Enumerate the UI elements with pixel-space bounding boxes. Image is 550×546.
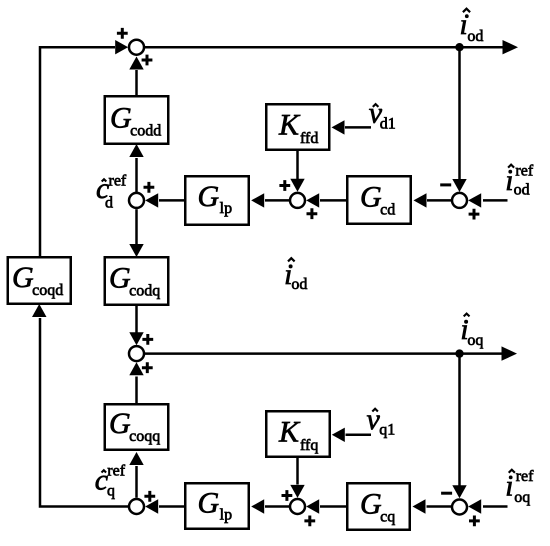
- arrowhead into S8 top: [290, 485, 304, 498]
- svg-text:q1: q1: [379, 422, 395, 439]
- signal label v_q1: [367, 403, 396, 439]
- summing junction S8: [290, 499, 305, 514]
- wire: G_cq output to S8: [320, 505, 346, 508]
- wire: v_q1 input to K_ffq: [346, 434, 372, 437]
- wire: S5 output right to i_oq output arrow: [145, 352, 504, 355]
- plus sign at S2 right input: [144, 182, 155, 193]
- wire: v_d1 input to K_ffd: [345, 126, 371, 129]
- summing junction S6 c_q_ref node: [129, 499, 144, 514]
- arrowhead into G_coqq bottom: [129, 452, 143, 465]
- minus sign at S4 top input: [440, 183, 451, 186]
- svg-text:ı: ı: [505, 470, 513, 503]
- block G_codd: [105, 96, 169, 144]
- wire: S6 output up to G_coqq: [135, 466, 138, 498]
- signal label c_q ref: [95, 462, 126, 499]
- wire: K_ffq output down to S8: [296, 458, 299, 485]
- arrowhead into G_lp right: [251, 193, 264, 207]
- wire: G_lp bottom output to S6: [159, 505, 184, 508]
- arrowhead into G_cq right: [413, 499, 426, 513]
- plus sign at S5 top input: [142, 334, 153, 345]
- arrowhead i_od output: [503, 40, 519, 54]
- wire: feedback down from i_oq node to S7: [458, 354, 461, 486]
- plus sign at S3 right input: [307, 208, 318, 219]
- plus sign at S6 right input: [144, 491, 155, 502]
- block G_lp top: [185, 176, 249, 225]
- wire: G_lp output to S2: [159, 199, 184, 202]
- signal label i_oq ref at right input: [505, 468, 534, 506]
- signal label i_od at middle: [284, 258, 307, 293]
- arrowhead into S5 top: [129, 332, 143, 345]
- svg-text:ref: ref: [516, 468, 534, 485]
- plus sign at S5 bottom input: [142, 362, 153, 373]
- svg-text:q: q: [107, 483, 115, 500]
- wire: S7 output to G_cq: [427, 505, 452, 508]
- arrowhead into S4 right: [468, 193, 481, 207]
- block G_coqd: [8, 257, 71, 304]
- block G_coqq: [105, 404, 169, 450]
- svg-text:oq: oq: [514, 489, 530, 506]
- wire: i_oq ref input from right: [483, 505, 508, 508]
- svg-text:ı: ı: [505, 164, 513, 197]
- plus sign at S4 right input: [469, 209, 480, 220]
- arrowhead into G_cd right: [414, 193, 427, 207]
- arrowhead into S5 bottom: [129, 362, 143, 375]
- minus sign at S7 top input: [441, 492, 452, 495]
- arrowhead into G_lp bottom right: [251, 499, 264, 513]
- wire: S8 output to G_lp bottom: [265, 505, 289, 508]
- svg-text:ref: ref: [109, 173, 127, 190]
- arrowhead into G_coqd bottom: [32, 304, 47, 317]
- svg-text:d: d: [105, 195, 113, 212]
- wire: feedback down from i_od node to S4: [458, 47, 461, 180]
- wire: G_coqq output up to S5: [135, 377, 138, 404]
- summing junction S7: [452, 500, 467, 515]
- wire: S2 output down to G_codq: [135, 209, 138, 244]
- arrowhead into K_ffd right: [332, 120, 345, 134]
- junction dot at i_oq node: [455, 349, 463, 357]
- wire: K_ffd output down to S3: [296, 151, 299, 180]
- svg-text:od: od: [291, 276, 307, 293]
- block G_codq: [105, 257, 169, 305]
- plus sign at S8 top input: [282, 490, 293, 501]
- arrowhead into G_codq top: [129, 244, 143, 257]
- plus sign at S3 top input: [279, 180, 290, 191]
- junction dot at i_od node: [455, 43, 463, 51]
- block G_cq: [347, 483, 410, 530]
- arrowhead into S4 top: [452, 179, 466, 192]
- plus sign at S8 right input: [304, 516, 315, 527]
- wire: S3 output to G_lp: [265, 199, 289, 202]
- arrowhead into S1 bottom: [129, 57, 143, 70]
- arrowhead into S8 right: [306, 499, 319, 513]
- wire: G_cd output to S3: [320, 199, 346, 202]
- summing junction S1: [129, 40, 144, 55]
- summing junction S2 c_d_ref node: [129, 193, 144, 208]
- plus sign at S1 bottom input: [142, 55, 153, 66]
- summing junction S5: [129, 346, 144, 361]
- wire: S1 output right to i_od output arrow: [145, 46, 505, 49]
- wire: i_od ref input from right: [483, 199, 508, 202]
- summing junction S3: [290, 193, 305, 208]
- wire: S4 output to G_cd: [427, 199, 451, 202]
- signal label v_d1: [369, 97, 396, 133]
- wire: S6 output left then up to G_coqd: [40, 318, 128, 507]
- block G_lp bottom: [185, 483, 249, 529]
- arrowhead into S3 right: [306, 193, 319, 207]
- arrowhead into S1 left: [115, 40, 128, 54]
- plus sign at S1 left input: [117, 28, 128, 39]
- block K_ffd: [266, 104, 329, 150]
- wire: G_codd output up to S1: [135, 70, 138, 95]
- svg-text:ref: ref: [515, 163, 533, 180]
- svg-text:od: od: [514, 182, 530, 199]
- signal label i_od hat at top output: [460, 8, 484, 45]
- svg-text:oq: oq: [467, 332, 483, 349]
- block G_cd: [347, 176, 411, 224]
- wire: S2 output up to G_codd: [135, 158, 138, 192]
- block K_ffq: [266, 411, 330, 457]
- arrowhead into S6 right: [145, 499, 158, 513]
- plus sign at S7 right input: [469, 516, 480, 527]
- arrowhead into S7 right: [468, 499, 481, 513]
- arrowhead into S3 top: [290, 179, 304, 192]
- arrowhead into G_codd bottom: [129, 144, 143, 157]
- svg-text:ref: ref: [107, 462, 125, 479]
- summing junction S4: [452, 193, 467, 208]
- svg-text:d1: d1: [380, 115, 396, 132]
- arrowhead into K_ffq right: [332, 428, 345, 442]
- signal label i_oq hat at bottom output: [460, 313, 483, 349]
- wire: G_coqd output up then right into summing node S1: [40, 47, 115, 256]
- arrowhead into S2 right: [145, 193, 158, 207]
- wire: G_codq output down to S5: [135, 306, 138, 333]
- signal label i_od ref at right input: [505, 163, 534, 199]
- svg-text:od: od: [467, 28, 483, 45]
- signal label c_d ref: [96, 172, 127, 212]
- arrowhead into S7 top: [452, 485, 466, 498]
- arrowhead i_oq output: [502, 346, 518, 360]
